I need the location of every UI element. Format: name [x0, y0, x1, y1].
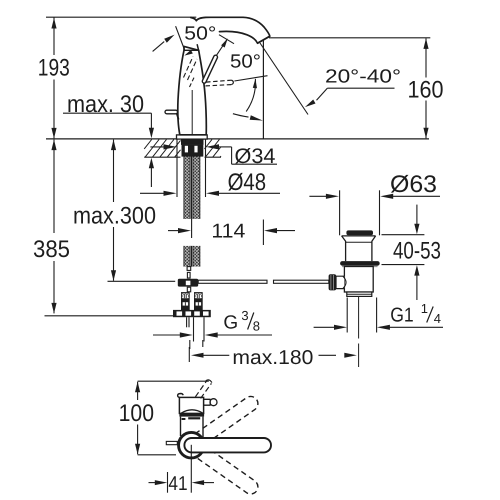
- svg-text:41: 41: [168, 473, 187, 495]
- svg-text:50°: 50°: [184, 23, 216, 44]
- svg-text:114: 114: [211, 221, 245, 243]
- svg-text:max. 30: max. 30: [67, 91, 144, 118]
- svg-text:193: 193: [38, 54, 70, 81]
- svg-text:20°-40°: 20°-40°: [325, 66, 401, 87]
- svg-text:G: G: [223, 313, 238, 334]
- svg-text:Ø63: Ø63: [390, 171, 437, 198]
- svg-text:8: 8: [253, 318, 260, 333]
- svg-text:max.300: max.300: [73, 202, 156, 229]
- svg-text:G1: G1: [390, 304, 414, 326]
- svg-text:40-53: 40-53: [393, 238, 441, 265]
- svg-text:3: 3: [241, 308, 248, 323]
- svg-text:50°: 50°: [230, 51, 261, 72]
- svg-text:100: 100: [119, 400, 154, 427]
- svg-text:Ø48: Ø48: [228, 169, 267, 196]
- svg-text:1: 1: [421, 301, 428, 316]
- svg-text:Ø34: Ø34: [235, 145, 276, 168]
- svg-text:max.180: max.180: [232, 347, 313, 369]
- svg-text:4: 4: [434, 311, 441, 326]
- svg-text:385: 385: [33, 236, 70, 263]
- svg-text:160: 160: [408, 76, 444, 103]
